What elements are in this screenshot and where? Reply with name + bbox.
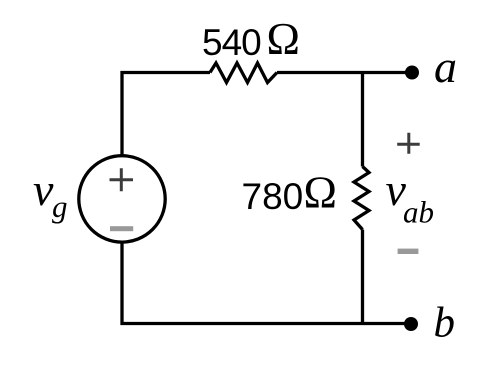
voltage source U1 vg circle [79,156,165,242]
svg-text:v: v [33,164,54,215]
minus polarity mark for vab [398,249,419,254]
svg-text:g: g [52,189,68,224]
svg-text:b: b [434,300,456,347]
plus polarity mark inside source [110,168,134,191]
wire: top horizontal segment from R1 to terminal a [277,71,411,74]
svg-text:Ω: Ω [267,14,300,64]
minus polarity mark inside source [110,226,133,231]
plus polarity mark for vab [397,133,420,154]
node junction top of 780 ohm resistor [361,71,364,167]
svg-text:ab: ab [403,195,434,230]
wire: right vertical segment from R2 to bottom wire [361,230,364,326]
terminal b dot [404,317,418,331]
wire: top horizontal segment from top-left corner to resistor R1 [122,73,210,157]
svg-text:780: 780 [242,176,304,217]
terminal a dot [405,66,419,80]
resistor R1 540ohm zigzag [210,63,277,83]
resistor R2 780ohm zigzag [354,167,369,230]
wire: left vertical segment from source bottom to bottom-left corner [122,242,411,324]
svg-text:a: a [434,41,457,92]
svg-text:Ω: Ω [304,168,337,218]
svg-text:540: 540 [202,22,261,63]
